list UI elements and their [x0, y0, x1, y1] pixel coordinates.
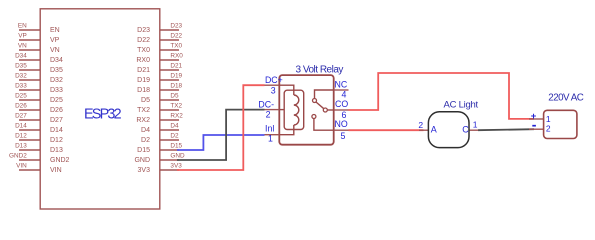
220V AC pin 1 stub	[529, 118, 544, 120]
svg-text:TX0: TX0	[137, 47, 150, 54]
svg-text:1: 1	[268, 134, 273, 144]
relay K1 body	[279, 75, 333, 145]
relay coil winding	[294, 95, 299, 125]
svg-text:3 Volt Relay: 3 Volt Relay	[296, 65, 344, 76]
AC light pin C stub	[469, 129, 478, 131]
svg-text:D5: D5	[141, 97, 150, 104]
relay pin stub DC- pin 2	[265, 109, 280, 111]
svg-text:GND2: GND2	[9, 153, 27, 160]
relay internal wire DC- to coil body	[279, 109, 284, 111]
svg-text:D25: D25	[50, 97, 63, 104]
220V AC pin 2 stub	[529, 128, 544, 130]
svg-text:D32: D32	[50, 77, 63, 84]
svg-text:D4: D4	[141, 127, 150, 134]
svg-text:D34: D34	[50, 57, 63, 64]
svg-text:D18: D18	[170, 83, 182, 90]
svg-text:D22: D22	[137, 37, 150, 44]
ESP32 right pin stubs	[160, 30, 179, 170]
svg-text:D34: D34	[15, 53, 27, 60]
svg-text:D21: D21	[137, 67, 150, 74]
svg-text:DC+: DC+	[265, 75, 283, 85]
svg-text:3V3: 3V3	[170, 163, 182, 170]
relay switch NO branch	[314, 119, 334, 131]
svg-text:RX2: RX2	[170, 113, 183, 120]
svg-text:220V AC: 220V AC	[548, 93, 584, 104]
relay internal wire coil bottom to In1	[279, 125, 294, 135]
ESP32 left inside pin names	[50, 27, 70, 174]
svg-text:5: 5	[340, 131, 345, 141]
svg-text:+: +	[531, 111, 537, 122]
svg-text:Inl: Inl	[265, 124, 274, 134]
svg-text:D2: D2	[141, 137, 150, 144]
ESP32 U1 body	[40, 9, 160, 209]
svg-text:3V3: 3V3	[138, 167, 151, 174]
svg-text:VP: VP	[18, 33, 27, 40]
svg-text:D19: D19	[137, 77, 150, 84]
svg-text:D35: D35	[50, 67, 63, 74]
wire relay NO to AC light A (red)	[349, 129, 424, 131]
svg-text:D26: D26	[15, 103, 27, 110]
svg-text:D27: D27	[50, 117, 63, 124]
relay coil body	[284, 90, 304, 129]
svg-text:D2: D2	[170, 133, 179, 140]
svg-text:D4: D4	[170, 123, 179, 130]
svg-text:GND: GND	[170, 153, 185, 160]
svg-text:D23: D23	[170, 23, 182, 30]
AC light pin A stub	[419, 129, 428, 131]
svg-text:AC Light: AC Light	[444, 99, 479, 110]
svg-text:NC: NC	[335, 79, 348, 89]
svg-text:VN: VN	[18, 43, 27, 50]
svg-text:D15: D15	[137, 147, 150, 154]
svg-text:D27: D27	[15, 113, 27, 120]
relay pin stub DC+ pin 3	[265, 84, 280, 86]
relay switch NC branch	[315, 90, 334, 98]
relay switch CO internal wire	[327, 109, 333, 111]
ESP32 left outside pin labels	[9, 23, 27, 170]
svg-text:2: 2	[418, 120, 423, 130]
svg-text:D23: D23	[137, 27, 150, 34]
svg-text:RX0: RX0	[136, 57, 150, 64]
svg-text:DC-: DC-	[258, 100, 274, 110]
svg-text:TX2: TX2	[137, 107, 150, 114]
svg-text:D13: D13	[15, 143, 27, 150]
svg-text:D33: D33	[50, 87, 63, 94]
220V AC minus label	[532, 125, 536, 127]
svg-text:RX2: RX2	[136, 117, 150, 124]
ESP32 left pin stubs	[19, 30, 40, 170]
relay internal wire DC+ to coil top	[279, 85, 294, 95]
svg-text:EN: EN	[18, 23, 27, 30]
svg-text:ESP32: ESP32	[84, 107, 122, 123]
svg-text:D19: D19	[170, 73, 182, 80]
svg-text:TX0: TX0	[170, 43, 182, 50]
ESP32 right outside pin labels	[170, 23, 185, 170]
wire 3V3 to relay DC+ (red)	[177, 85, 265, 170]
svg-text:D14: D14	[15, 123, 27, 130]
svg-text:D21: D21	[170, 63, 182, 70]
wire GND to relay DC- (dark)	[177, 110, 265, 160]
wire D15 to relay In1 (blue)	[177, 135, 265, 150]
svg-text:D5: D5	[170, 93, 179, 100]
220V AC body	[544, 110, 577, 138]
relay pin stub NO pin 5	[334, 129, 349, 131]
svg-text:VN: VN	[50, 47, 60, 54]
svg-text:D25: D25	[15, 93, 27, 100]
svg-text:D15: D15	[170, 143, 182, 150]
relay pin stub CO pin 6	[334, 109, 349, 111]
svg-text:4: 4	[341, 90, 346, 100]
svg-text:EN: EN	[50, 27, 60, 34]
svg-text:D14: D14	[50, 127, 63, 134]
AC light body	[428, 112, 469, 148]
svg-text:D32: D32	[15, 73, 27, 80]
svg-text:NO: NO	[335, 119, 348, 129]
svg-text:VIN: VIN	[50, 167, 62, 174]
svg-text:VIN: VIN	[16, 163, 27, 170]
relay switch CO pivot circle	[323, 108, 327, 112]
relay switch NO contact circle	[312, 115, 316, 119]
svg-text:2: 2	[546, 123, 551, 133]
ESP32 right inside pin names	[134, 27, 150, 174]
relay switch NC contact circle	[313, 99, 317, 103]
svg-text:GND: GND	[134, 157, 150, 164]
svg-text:RX0: RX0	[170, 53, 183, 60]
svg-text:D18: D18	[137, 87, 150, 94]
wire AC light C to 220V AC - (dark)	[478, 129, 534, 130]
svg-text:D33: D33	[15, 83, 27, 90]
svg-text:TX2: TX2	[170, 103, 182, 110]
svg-text:D12: D12	[15, 133, 27, 140]
svg-text:D12: D12	[50, 137, 63, 144]
relay pin stub NC pin 4	[334, 89, 349, 91]
svg-text:2: 2	[266, 110, 271, 120]
svg-text:D13: D13	[50, 147, 63, 154]
svg-text:3: 3	[271, 86, 276, 96]
wire relay CO to 220V AC + (red)	[349, 73, 535, 119]
svg-text:C: C	[462, 124, 469, 134]
svg-text:D35: D35	[15, 63, 27, 70]
svg-text:1: 1	[473, 120, 478, 130]
svg-text:VP: VP	[50, 37, 60, 44]
relay pin stub In1 pin 1	[265, 134, 280, 136]
svg-text:D22: D22	[170, 33, 182, 40]
svg-text:CO: CO	[335, 99, 348, 109]
relay switch blade	[316, 102, 324, 109]
svg-text:GND2: GND2	[50, 157, 70, 164]
svg-text:1: 1	[546, 114, 551, 124]
svg-text:D26: D26	[50, 107, 63, 114]
svg-text:A: A	[431, 124, 437, 134]
